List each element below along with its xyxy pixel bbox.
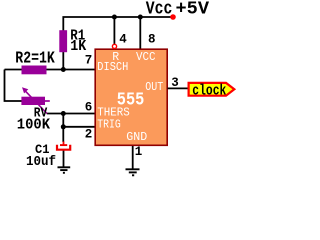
svg-text:8: 8 <box>148 33 156 47</box>
svg-text:10uf: 10uf <box>26 154 56 170</box>
svg-text:1K: 1K <box>70 38 86 55</box>
svg-text:2: 2 <box>85 128 93 142</box>
svg-text:1: 1 <box>135 145 143 159</box>
svg-text:GND: GND <box>126 131 147 144</box>
svg-text:OUT: OUT <box>145 81 163 94</box>
svg-text:100K: 100K <box>17 116 50 133</box>
svg-text:TRIG: TRIG <box>97 118 121 131</box>
svg-text:6: 6 <box>85 101 93 115</box>
svg-text:555: 555 <box>117 89 145 110</box>
svg-text:Vcc: Vcc <box>146 0 173 20</box>
svg-text:7: 7 <box>85 54 93 68</box>
svg-text:DISCH: DISCH <box>97 61 128 74</box>
svg-text:VCC: VCC <box>136 51 156 64</box>
svg-text:clock: clock <box>192 84 226 100</box>
svg-text:4: 4 <box>119 33 127 47</box>
svg-text:+5V: +5V <box>176 0 210 20</box>
svg-text:R2=1K: R2=1K <box>15 50 55 69</box>
svg-text:3: 3 <box>171 76 179 90</box>
